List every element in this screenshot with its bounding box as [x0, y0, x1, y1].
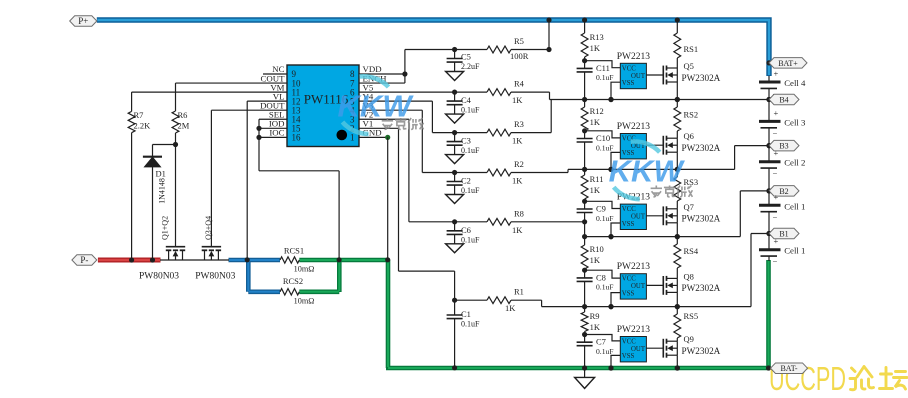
wire VCC jog row 3	[585, 201, 621, 208]
wire P- red segment	[98, 258, 161, 263]
svg-text:0.1uF: 0.1uF	[596, 214, 614, 223]
svg-text:+: +	[774, 192, 779, 202]
svg-text:0.1uF: 0.1uF	[596, 73, 614, 82]
IC PW2213 row 1	[617, 52, 651, 89]
svg-text:B4: B4	[779, 96, 788, 105]
svg-text:PW2302A: PW2302A	[682, 283, 721, 293]
resistor R1 1K	[487, 287, 524, 314]
transistor Q3+Q4 PW80N03	[195, 216, 235, 282]
connector B4	[766, 94, 799, 105]
svg-text:0.1uF: 0.1uF	[596, 347, 614, 356]
wire DOUT pin13 to Q3+Q4 gate	[211, 110, 287, 247]
svg-text:0.1uF: 0.1uF	[461, 320, 480, 329]
wire BAT- green net	[299, 260, 770, 368]
capacitor C2 0.1uF	[447, 173, 480, 196]
resistor RS4	[674, 237, 699, 279]
svg-text:10mΩ: 10mΩ	[294, 297, 315, 306]
svg-text:0.1uF: 0.1uF	[461, 235, 480, 244]
svg-text:0.1uF: 0.1uF	[461, 106, 480, 115]
svg-text:+: +	[774, 148, 779, 158]
junction dots on BAT+ rail	[582, 17, 680, 22]
capacitor C4 0.1uF	[447, 92, 480, 115]
svg-text:KKW: KKW	[337, 89, 414, 124]
resistor R12 1K	[581, 100, 604, 134]
svg-text:−: −	[773, 257, 778, 267]
svg-text:R8: R8	[514, 208, 524, 218]
svg-text:−: −	[773, 128, 778, 138]
wire VCC jog row 2	[585, 131, 621, 138]
wire OUT to gate row 4	[646, 284, 663, 286]
resistor R3 1K	[487, 119, 524, 146]
resistor R11 1K	[581, 169, 603, 204]
ground under C2	[446, 195, 464, 204]
svg-text:C8: C8	[596, 272, 606, 282]
capacitor C1 0.1uF	[447, 300, 480, 370]
footer text UCCPD forum	[769, 360, 907, 397]
svg-text:PW2302A: PW2302A	[682, 346, 721, 356]
svg-text:IOC: IOC	[269, 128, 284, 138]
svg-text:C7: C7	[596, 337, 606, 347]
wire Cell 1 bottom to BAT-	[768, 256, 770, 261]
connector BAT+	[766, 58, 807, 69]
diode D1 1N4148	[143, 157, 167, 263]
resistor RCS2 10mOhm	[280, 276, 314, 306]
svg-text:PW2213: PW2213	[617, 52, 651, 62]
svg-text:C11: C11	[596, 63, 610, 73]
wire OUT to gate row 2	[646, 144, 663, 146]
svg-text:1K: 1K	[512, 176, 523, 186]
capacitor C9 0.1uF	[577, 201, 614, 236]
resistor R13 1K	[581, 20, 604, 63]
svg-text:RS4: RS4	[684, 246, 699, 256]
svg-text:B2: B2	[779, 187, 788, 196]
svg-text:PW80N03: PW80N03	[195, 272, 235, 282]
wire VM pin11 to R7	[132, 92, 287, 111]
svg-text:BAT+: BAT+	[778, 59, 798, 68]
svg-text:R11: R11	[590, 174, 604, 184]
svg-text:−: −	[773, 212, 778, 222]
wire B2 net	[582, 188, 772, 239]
connector P-	[72, 255, 97, 266]
battery Cell 4	[759, 69, 806, 100]
svg-text:R6: R6	[178, 110, 188, 120]
svg-text:R1: R1	[514, 287, 524, 297]
svg-text:1N4148: 1N4148	[158, 178, 167, 204]
transistor Q9 PW2302A	[663, 334, 720, 370]
svg-text:D1: D1	[156, 169, 166, 179]
svg-text:Q1+Q2: Q1+Q2	[161, 216, 170, 240]
ground under C6	[446, 244, 464, 253]
svg-text:2M: 2M	[178, 121, 190, 131]
svg-text:2.2K: 2.2K	[134, 121, 152, 131]
wire COUT pin10 to R6	[176, 83, 288, 111]
svg-text:1K: 1K	[590, 117, 601, 127]
svg-text:2.2uF: 2.2uF	[461, 62, 480, 71]
svg-text:VCC: VCC	[622, 206, 636, 213]
svg-text:R13: R13	[590, 32, 604, 42]
svg-text:Q3+Q4: Q3+Q4	[204, 216, 213, 240]
svg-text:RCS2: RCS2	[283, 276, 303, 286]
wire V1 net (R1 line) and B1 net	[359, 128, 772, 309]
battery Cell 3	[759, 100, 806, 146]
wire VCC jog row 5	[585, 335, 621, 341]
svg-text:Cell 4: Cell 4	[784, 78, 806, 88]
connector B2	[766, 186, 799, 197]
IC PW2213 row 3	[617, 193, 651, 230]
resistor R9 1K	[581, 307, 601, 338]
ground under C4	[446, 114, 464, 123]
svg-text:16: 16	[292, 133, 302, 143]
battery Cell 2	[759, 146, 805, 191]
wire VSS jog row 4	[608, 293, 620, 310]
wire NC pin9 stub	[263, 73, 287, 75]
capacitor C6 0.1uF	[447, 222, 480, 245]
svg-text:BAT-: BAT-	[780, 364, 797, 373]
wire OUT to gate row 3	[646, 215, 663, 217]
svg-text:Q5: Q5	[684, 61, 694, 71]
connector B3	[766, 140, 799, 151]
transistor Q6 PW2302A	[663, 131, 720, 172]
svg-text:R10: R10	[590, 244, 604, 254]
wire GND pin1 to BAT- node	[359, 135, 390, 263]
svg-text:1K: 1K	[512, 95, 523, 105]
watermark KKW 1	[337, 76, 414, 134]
wire VSS jog row 5	[608, 355, 620, 370]
svg-text:Q8: Q8	[684, 271, 694, 281]
svg-text:1K: 1K	[590, 322, 601, 332]
svg-text:100R: 100R	[510, 51, 529, 61]
svg-text:1K: 1K	[590, 185, 601, 195]
IC PW2213 row 5	[617, 325, 651, 362]
wire OUT to gate row 1	[646, 74, 663, 76]
svg-text:+: +	[774, 69, 779, 79]
wire OUT to gate row 5	[646, 347, 663, 349]
IC PW2213 row 4	[617, 262, 651, 299]
svg-text:Q7: Q7	[684, 202, 694, 212]
svg-text:PW2213: PW2213	[617, 325, 651, 335]
svg-text:C10: C10	[596, 133, 610, 143]
svg-text:OUT: OUT	[631, 283, 646, 290]
svg-text:R4: R4	[514, 79, 525, 89]
svg-text:C4: C4	[461, 95, 472, 105]
svg-text:OUT: OUT	[631, 214, 646, 221]
transistor Q5 PW2302A	[663, 61, 720, 102]
svg-text:1K: 1K	[505, 303, 516, 313]
svg-text:OUT: OUT	[631, 73, 646, 80]
capacitor C11 0.1uF	[577, 61, 614, 100]
svg-text:P-: P-	[80, 255, 88, 265]
ground under C3	[446, 155, 464, 164]
resistor R4 1K	[487, 79, 525, 106]
svg-text:PW2213: PW2213	[617, 122, 651, 132]
battery Cell 1	[759, 234, 805, 267]
svg-text:KKW: KKW	[609, 154, 686, 189]
resistor R8 1K	[487, 208, 524, 235]
connector BAT-	[771, 363, 808, 374]
svg-text:RCS1: RCS1	[284, 246, 304, 256]
capacitor C5 2.2uF	[447, 50, 480, 72]
svg-text:1K: 1K	[512, 225, 523, 235]
svg-text:RS2: RS2	[684, 110, 699, 120]
svg-text:0.1uF: 0.1uF	[461, 186, 480, 195]
capacitor C8 0.1uF	[577, 270, 614, 306]
svg-text:B3: B3	[779, 142, 788, 151]
junction dots on BAT- rail	[582, 365, 771, 370]
wire P- main low-side line	[160, 259, 229, 261]
svg-text:C9: C9	[596, 204, 606, 214]
wire V4 net (R3 line)	[359, 101, 551, 135]
resistor RCS1 10mOhm	[280, 246, 314, 274]
connector P+	[70, 16, 97, 27]
IC PW1116	[287, 65, 359, 147]
transistor Q1+Q2 PW80N03	[139, 216, 185, 282]
watermark KKW 2	[609, 142, 686, 200]
svg-text:R3: R3	[514, 119, 524, 129]
svg-text:PW2213: PW2213	[617, 262, 651, 272]
capacitor C3 0.1uF	[447, 133, 480, 155]
resistor RS3	[674, 169, 698, 208]
svg-text:R7: R7	[134, 110, 144, 120]
wire VSS jog row 3	[608, 223, 620, 239]
capacitor C10 0.1uF	[577, 131, 614, 170]
resistor R5 100R	[487, 36, 529, 61]
svg-text:+: +	[774, 236, 779, 246]
wire VL pin12 to CS node	[245, 101, 287, 262]
resistor R10 1K	[581, 237, 604, 273]
ground at BAT- rail	[575, 370, 595, 388]
wire VCC jog row 4	[585, 270, 621, 278]
svg-text:Q9: Q9	[684, 334, 694, 344]
resistor R7 2.2K	[128, 110, 151, 133]
svg-text:+: +	[774, 108, 779, 118]
svg-text:1K: 1K	[512, 136, 523, 146]
wire VSS jog row 2	[608, 152, 620, 172]
svg-text:Cell 1: Cell 1	[784, 201, 805, 211]
svg-text:R9: R9	[590, 311, 600, 321]
battery Cell 1	[759, 191, 805, 234]
wire V2 net (R8 line)	[359, 119, 587, 224]
svg-text:OUT: OUT	[631, 346, 646, 353]
svg-text:Cell 1: Cell 1	[784, 246, 805, 256]
svg-text:C2: C2	[461, 176, 471, 186]
wire V5 net (R4 line) and B4 net	[359, 90, 772, 133]
svg-text:1K: 1K	[590, 43, 601, 53]
svg-text:C5: C5	[461, 52, 471, 62]
svg-text:1: 1	[350, 133, 355, 143]
resistor R2 1K	[487, 159, 524, 186]
svg-text:Cell 2: Cell 2	[784, 158, 805, 168]
IC PW2213 row 2	[617, 122, 651, 159]
resistor R6 2M	[172, 110, 190, 133]
wire VSS jog row 1	[608, 82, 620, 102]
wire SEL/IOD/IOC tie to BAT- sense	[256, 119, 341, 262]
svg-text:B1: B1	[779, 230, 788, 239]
svg-text:C1: C1	[461, 309, 471, 319]
wire P+ to BAT+ positive rail (blue)	[97, 20, 769, 76]
resistor RS2	[674, 100, 698, 139]
svg-text:1K: 1K	[590, 255, 601, 265]
svg-text:PW80N03: PW80N03	[139, 272, 179, 282]
resistor RS1	[674, 20, 698, 68]
wire R6 to Q1+Q2 gate, node with D1	[153, 133, 179, 247]
connector B1	[766, 228, 799, 239]
svg-text:C6: C6	[461, 225, 471, 235]
svg-text:0.1uF: 0.1uF	[461, 146, 480, 155]
svg-text:10mΩ: 10mΩ	[294, 265, 315, 274]
resistor RS5	[674, 307, 698, 342]
transistor Q7 PW2302A	[663, 202, 720, 239]
svg-text:VSS: VSS	[622, 353, 635, 360]
wire VCC jog row 1	[585, 61, 621, 68]
wire R7 to P-	[129, 133, 134, 263]
svg-text:VCC: VCC	[622, 65, 636, 72]
svg-text:RS5: RS5	[684, 311, 699, 321]
svg-text:Q6: Q6	[684, 131, 694, 141]
svg-text:−: −	[773, 169, 778, 179]
svg-text:Cell 3: Cell 3	[784, 117, 806, 127]
svg-text:VSS: VSS	[622, 290, 635, 297]
svg-text:0.1uF: 0.1uF	[596, 283, 614, 292]
svg-text:P+: P+	[78, 16, 88, 26]
svg-text:VSS: VSS	[622, 221, 635, 228]
svg-text:PW2302A: PW2302A	[682, 73, 721, 83]
svg-text:VCC: VCC	[622, 276, 636, 283]
svg-text:R5: R5	[514, 36, 524, 46]
svg-text:PW2302A: PW2302A	[682, 143, 721, 153]
wire VDD+ENCH net to BAT+ via R5	[359, 17, 552, 83]
svg-text:VCC: VCC	[622, 339, 636, 346]
svg-text:C3: C3	[461, 136, 471, 146]
ground under C5	[446, 72, 464, 81]
wire CS blue segment to RCS1/RCS2	[229, 260, 281, 292]
svg-text:PW2302A: PW2302A	[682, 214, 721, 224]
svg-text:RS1: RS1	[684, 44, 699, 54]
transistor Q8 PW2302A	[663, 271, 720, 309]
svg-text:VSS: VSS	[622, 80, 635, 87]
wire V3 net (R2 line) and B3 net	[359, 110, 772, 175]
svg-text:R2: R2	[514, 159, 524, 169]
svg-text:R12: R12	[590, 106, 604, 116]
capacitor C7 0.1uF	[577, 335, 614, 369]
svg-text:0.1uF: 0.1uF	[596, 143, 614, 152]
